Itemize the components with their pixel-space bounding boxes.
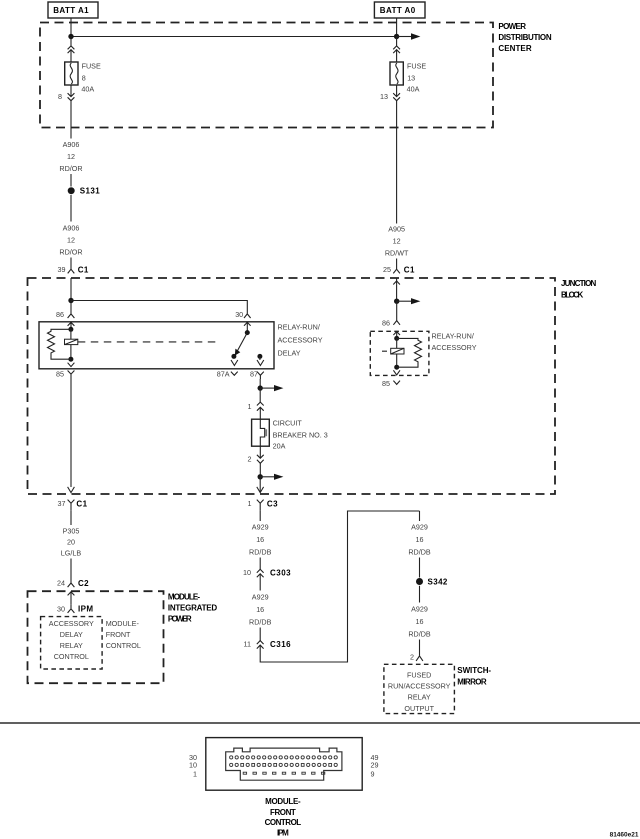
svg-text:16: 16 <box>416 617 424 626</box>
wire BATT A1 stub <box>70 18 72 37</box>
svg-text:16: 16 <box>256 535 264 544</box>
wire label A929 16 RD/DB fourth <box>408 605 431 639</box>
pin 87 exit <box>250 369 264 379</box>
svg-text:RELAY-RUN/: RELAY-RUN/ <box>432 332 474 341</box>
splice S131 <box>68 187 101 196</box>
node junction right relay feed <box>394 299 399 304</box>
connector pin 37 C1 <box>58 499 88 510</box>
svg-text:10: 10 <box>189 760 197 769</box>
wire branch to pin 30 <box>71 301 247 314</box>
relay contact 87 <box>257 354 264 366</box>
power distribution center box <box>40 23 493 128</box>
relay run accessory delay box <box>39 322 274 369</box>
svg-text:CONTROL: CONTROL <box>265 818 303 827</box>
svg-text:MODULE-: MODULE- <box>168 592 201 601</box>
svg-text:FRONT: FRONT <box>270 808 297 817</box>
pin 85 sub-relay exit <box>382 370 400 388</box>
connector pin 25 C1 <box>383 265 415 275</box>
arrow entry below C1-25 <box>393 278 400 284</box>
svg-text:S342: S342 <box>428 578 448 587</box>
wire A929 to C303 <box>259 558 261 570</box>
connector pin 1 breaker entry <box>248 402 264 419</box>
svg-text:A905: A905 <box>388 225 405 234</box>
svg-text:40A: 40A <box>407 85 420 94</box>
wire C1-37 to P305 label <box>70 510 72 525</box>
pin 87A label <box>217 369 238 378</box>
svg-text:BATT A0: BATT A0 <box>380 6 417 15</box>
pin labels 30 10 1 <box>189 753 197 779</box>
label RELAY-RUN ACCESSORY <box>432 332 477 352</box>
svg-text:10: 10 <box>243 568 251 577</box>
wire 87 junction to breaker <box>259 388 261 402</box>
svg-text:85: 85 <box>382 379 390 388</box>
pin row 3 squares <box>243 772 325 774</box>
connector symbol above fuse 8 <box>68 37 75 63</box>
connector drawing MODULE-FRONT CONTROL IPM outer <box>206 738 362 791</box>
svg-text:A929: A929 <box>411 605 428 614</box>
label MODULE-INTEGRATED POWER <box>168 592 218 623</box>
connector pin 10 C303 <box>243 568 291 590</box>
svg-text:39: 39 <box>58 265 66 274</box>
relay coil K1 <box>65 327 78 362</box>
wire label A929 16 RD/DB third <box>408 523 431 557</box>
svg-text:C2: C2 <box>78 579 89 588</box>
svg-text:RD/DB: RD/DB <box>249 548 272 557</box>
svg-text:RUN/ACCESSORY: RUN/ACCESSORY <box>388 682 451 691</box>
wire bus A1 to A0 <box>71 36 397 38</box>
svg-text:16: 16 <box>256 605 264 614</box>
connector housing <box>226 748 342 780</box>
connector pin 30 IPM <box>57 604 93 613</box>
wire fuse 13 to A905 label <box>396 101 398 224</box>
connector symbol below fuse 8 <box>68 85 75 101</box>
pin row 2 mixed <box>230 763 338 766</box>
sub-relay resistor <box>397 338 422 367</box>
svg-text:POWER: POWER <box>498 22 527 31</box>
connector BATT A1 <box>48 2 98 18</box>
flow arrow right relay feed <box>397 298 421 304</box>
svg-text:LG/LB: LG/LB <box>61 549 82 558</box>
wire to S342 <box>419 558 421 578</box>
sub-relay coil <box>391 336 404 370</box>
svg-text:86: 86 <box>382 319 390 328</box>
svg-text:BLOCK: BLOCK <box>561 290 585 299</box>
svg-text:IPM: IPM <box>78 605 93 614</box>
fused run accessory relay output box <box>384 664 455 713</box>
connector pin 1 C3 <box>248 499 279 510</box>
wire label P305 20 LG/LB <box>61 527 82 558</box>
svg-text:A929: A929 <box>252 593 269 602</box>
svg-text:FRONT: FRONT <box>106 630 131 639</box>
svg-text:16: 16 <box>416 535 424 544</box>
svg-text:RELAY: RELAY <box>408 693 431 702</box>
svg-text:A929: A929 <box>252 523 269 532</box>
pin 86 sub-relay entry <box>382 301 400 338</box>
svg-text:INTEGRATED: INTEGRATED <box>168 603 218 612</box>
svg-text:2: 2 <box>248 455 252 464</box>
wire to C3 exit arrow <box>257 477 264 493</box>
svg-text:BREAKER NO. 3: BREAKER NO. 3 <box>273 430 328 439</box>
node junction left relay feed <box>68 298 73 303</box>
wire label A929 16 RD/DB second <box>249 593 272 627</box>
svg-text:FUSED: FUSED <box>407 670 431 679</box>
node junction left bus <box>68 34 73 39</box>
svg-text:CENTER: CENTER <box>498 44 532 53</box>
connector pin 39 C1 <box>58 265 89 275</box>
svg-text:20A: 20A <box>273 441 286 450</box>
relay armature dashed link <box>78 341 216 343</box>
label RELAY-RUN ACCESSORY DELAY <box>278 323 323 358</box>
arrow entry into IPM <box>68 592 75 605</box>
label ACCESSORY DELAY RELAY CONTROL <box>49 619 94 661</box>
svg-text:A929: A929 <box>411 523 428 532</box>
wire S131 to A906 label lower <box>70 195 72 222</box>
wire C1-25 to junction dot <box>396 285 398 302</box>
svg-text:CONTROL: CONTROL <box>54 652 89 661</box>
svg-text:MODULE-: MODULE- <box>106 619 140 628</box>
relay run accessory dashed box <box>370 331 429 375</box>
flow arrow breaker out <box>260 474 283 480</box>
wire label A905 12 RD/WT <box>385 225 409 258</box>
wire BATT A0 stub <box>396 18 398 37</box>
flow arrow right of bus <box>397 33 421 39</box>
connector pin 11 C316 <box>244 640 292 649</box>
svg-text:A906: A906 <box>63 224 80 233</box>
separator line <box>0 722 640 724</box>
svg-text:30: 30 <box>235 310 243 319</box>
svg-text:CIRCUIT: CIRCUIT <box>273 419 303 428</box>
svg-text:C316: C316 <box>270 640 291 649</box>
node junction breaker out <box>258 474 263 479</box>
svg-text:8: 8 <box>58 92 62 101</box>
sub-relay armature dashed link <box>382 350 391 352</box>
pin labels 49 29 9 <box>371 753 379 779</box>
connector pin 2 breaker exit <box>248 446 264 463</box>
relay contact 87A <box>231 354 238 366</box>
svg-text:ACCESSORY: ACCESSORY <box>432 343 477 352</box>
wire S342 to A929 label <box>419 586 421 603</box>
label MODULE-FRONT CONTROL <box>106 619 141 650</box>
label JUNCTION BLOCK <box>561 279 598 300</box>
svg-text:FUSE: FUSE <box>407 62 426 71</box>
accessory delay relay control box <box>41 617 103 669</box>
svg-text:SWITCH-: SWITCH- <box>457 666 492 675</box>
pin row 1 circles <box>230 756 338 759</box>
connector symbol below fuse 13 <box>393 85 400 101</box>
svg-text:RELAY-RUN/: RELAY-RUN/ <box>278 323 320 332</box>
node junction 87 branch <box>258 385 263 390</box>
svg-text:40A: 40A <box>81 85 94 94</box>
label FUSE 13 40A <box>407 62 427 94</box>
svg-text:FUSE: FUSE <box>82 62 101 71</box>
svg-text:JUNCTION: JUNCTION <box>561 279 598 288</box>
svg-text:8: 8 <box>82 73 86 82</box>
svg-text:24: 24 <box>57 579 65 588</box>
svg-text:9: 9 <box>371 769 375 778</box>
svg-text:2: 2 <box>410 653 414 662</box>
wire fuse 8 to A906 label <box>70 101 72 139</box>
pin 85 relay exit <box>56 363 74 379</box>
module integrated power box <box>28 591 164 683</box>
svg-text:RELAY: RELAY <box>60 641 83 650</box>
label POWER DISTRIBUTION CENTER <box>498 22 552 53</box>
svg-text:1: 1 <box>193 769 197 778</box>
connector pin 24 C2 <box>57 579 89 588</box>
svg-text:DELAY: DELAY <box>278 349 301 358</box>
pin 30 relay entry <box>235 310 250 333</box>
svg-text:87: 87 <box>250 369 258 378</box>
svg-text:RD/WT: RD/WT <box>385 249 409 258</box>
label SWITCH-MIRROR <box>457 666 492 687</box>
wire pin87 down to junction <box>259 379 261 388</box>
svg-text:CONTROL: CONTROL <box>106 641 141 650</box>
svg-text:P305: P305 <box>63 527 80 536</box>
wire breaker to junction <box>259 463 261 477</box>
wire A906 lower label to C1 <box>70 258 72 270</box>
svg-text:MODULE-: MODULE- <box>265 797 302 806</box>
svg-text:C3: C3 <box>267 500 278 509</box>
relay switch blade <box>235 330 250 356</box>
svg-text:12: 12 <box>67 152 75 161</box>
svg-text:RD/DB: RD/DB <box>408 548 431 557</box>
label MODULE-FRONT CONTROL IPM <box>265 797 303 838</box>
connector symbol above fuse 13 <box>393 37 400 63</box>
pin 86 relay entry <box>56 301 74 330</box>
svg-text:C1: C1 <box>404 265 415 274</box>
splice S342 <box>416 578 448 587</box>
fuse 8 40A <box>65 62 78 85</box>
svg-text:1: 1 <box>248 499 252 508</box>
svg-text:RD/OR: RD/OR <box>59 164 82 173</box>
svg-text:IPM: IPM <box>277 829 290 838</box>
svg-text:C1: C1 <box>78 265 89 274</box>
junction block box <box>28 278 556 494</box>
wire label A906 12 RD/OR upper <box>59 140 82 173</box>
svg-text:13: 13 <box>407 73 415 82</box>
svg-text:BATT A1: BATT A1 <box>53 6 90 15</box>
svg-text:20: 20 <box>67 538 75 547</box>
label CIRCUIT BREAKER NO 3 20A <box>273 419 328 451</box>
flow arrow 87 branch <box>260 385 283 391</box>
svg-text:1: 1 <box>248 402 252 411</box>
svg-text:DELAY: DELAY <box>60 630 83 639</box>
wire label A906 12 RD/OR lower <box>59 224 82 257</box>
circuit breaker no 3 20A <box>252 419 270 446</box>
wire C1-39 into junction block <box>70 278 72 301</box>
svg-text:RD/DB: RD/DB <box>249 618 272 627</box>
svg-text:85: 85 <box>56 369 64 378</box>
svg-text:12: 12 <box>393 237 401 246</box>
svg-text:C1: C1 <box>76 500 87 509</box>
svg-text:11: 11 <box>244 640 251 649</box>
node junction right bus <box>394 34 399 39</box>
wire C3 to A929 label <box>259 510 261 521</box>
wire C316 loop to switch mirror column <box>260 511 419 662</box>
wire A929 label to pin 2 <box>419 640 421 656</box>
wire label A929 16 RD/DB first <box>249 523 272 557</box>
svg-text:81460e21: 81460e21 <box>610 831 639 838</box>
svg-text:POWER: POWER <box>168 614 193 623</box>
wire A905 label to C1 <box>396 259 398 270</box>
svg-text:OUTPUT: OUTPUT <box>404 704 434 713</box>
svg-text:MIRROR: MIRROR <box>457 677 488 686</box>
svg-text:DISTRIBUTION: DISTRIBUTION <box>498 33 552 42</box>
svg-text:13: 13 <box>380 92 388 101</box>
label FUSED RUN/ACCESSORY RELAY OUTPUT <box>388 670 451 713</box>
connector pin 2 switch mirror <box>410 653 423 662</box>
wire P305 label to C2 <box>70 559 72 584</box>
svg-text:86: 86 <box>56 310 64 319</box>
connector BATT A0 <box>374 2 425 18</box>
exit arrow C1-37 <box>68 487 75 493</box>
fuse 13 40A <box>390 62 403 85</box>
wire A929 to C316 <box>259 628 261 641</box>
svg-text:29: 29 <box>371 760 379 769</box>
svg-text:ACCESSORY: ACCESSORY <box>49 619 94 628</box>
wire pin85 down to C1-37 <box>70 379 72 487</box>
label FUSE 8 40A <box>81 62 101 94</box>
svg-text:RD/DB: RD/DB <box>408 630 431 639</box>
svg-text:25: 25 <box>383 265 391 274</box>
svg-text:87A: 87A <box>217 369 230 378</box>
wire switch mirror column upper <box>419 511 421 521</box>
svg-text:37: 37 <box>58 499 66 508</box>
svg-text:30: 30 <box>57 604 65 613</box>
svg-text:12: 12 <box>67 236 75 245</box>
svg-text:S131: S131 <box>80 187 100 196</box>
wire A906 label to S131 <box>70 174 72 187</box>
svg-text:C303: C303 <box>270 569 291 578</box>
svg-text:RD/OR: RD/OR <box>59 248 82 257</box>
svg-text:A906: A906 <box>63 140 80 149</box>
relay coil resistor <box>48 329 71 359</box>
svg-text:ACCESSORY: ACCESSORY <box>278 336 323 345</box>
